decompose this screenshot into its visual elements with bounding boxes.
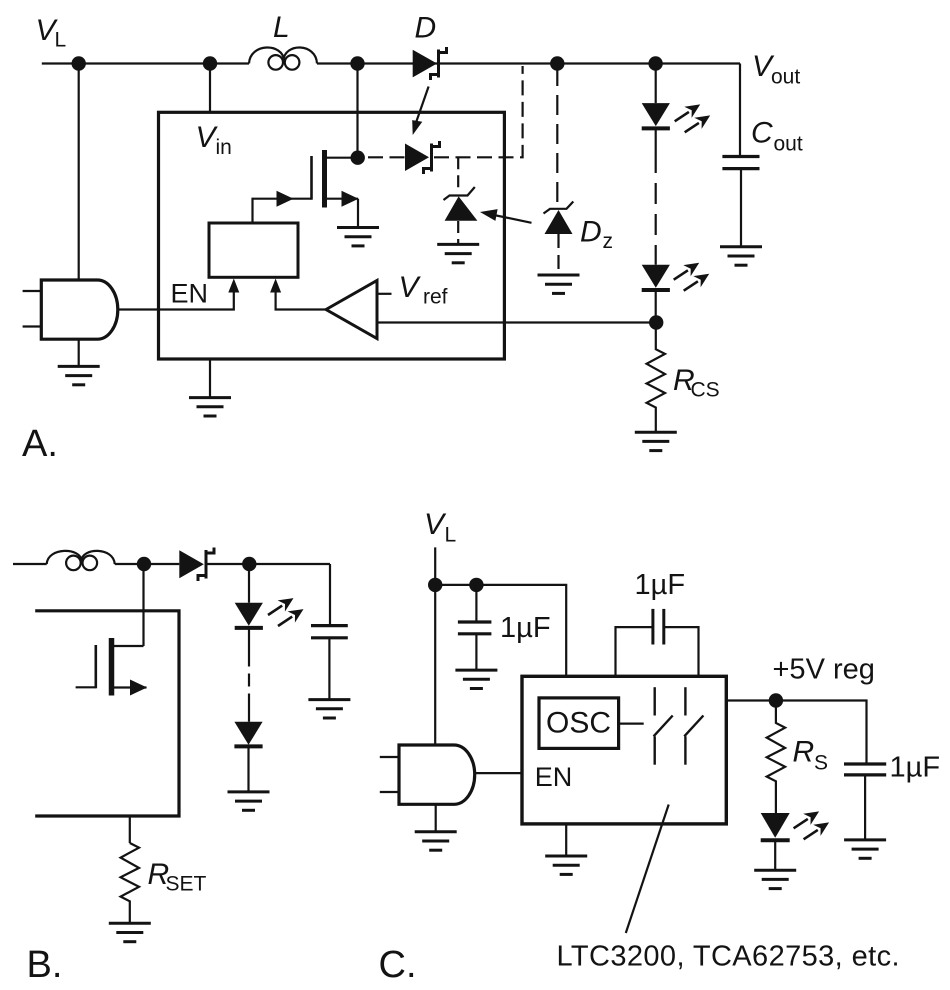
AND gate A <box>41 280 118 339</box>
wire: cap (B) to ground <box>328 638 330 699</box>
AND gate C <box>399 745 475 804</box>
wire: input to inductor <box>13 563 47 565</box>
svg-text:D: D <box>415 12 437 45</box>
inductor (B) <box>47 551 115 570</box>
internal diode (schottky, dashed branch) <box>405 141 440 174</box>
wire: dashed Dz branch from top rail <box>556 66 558 208</box>
resistor RSET <box>121 843 139 922</box>
svg-text:EN: EN <box>535 762 573 792</box>
capacitor Cout <box>722 157 759 169</box>
wire: LED1 cathode stub <box>655 128 657 152</box>
ground (IC box A) <box>189 398 231 416</box>
label VL (C) <box>424 508 456 547</box>
LED (C) <box>761 813 790 840</box>
svg-text:D: D <box>580 216 602 249</box>
svg-text:ref: ref <box>423 286 448 309</box>
LED 1 (B) <box>235 603 263 628</box>
wire: AND gate C output to EN <box>475 772 522 774</box>
svg-text:1µF: 1µF <box>500 612 551 644</box>
LED 2 (B) <box>234 722 262 747</box>
wire: VL down to AND gate <box>78 64 80 281</box>
LED D1 <box>642 103 670 128</box>
label OSC <box>546 707 611 740</box>
ground (output cap C) <box>844 840 886 858</box>
flying capacitor 1uF <box>616 609 699 676</box>
label D <box>415 12 437 45</box>
svg-text:L: L <box>55 29 67 52</box>
charge-pump IC box C <box>522 676 726 824</box>
svg-text:EN: EN <box>171 279 209 309</box>
svg-text:in: in <box>216 136 232 159</box>
wire: AND gate A ground stub <box>78 339 80 366</box>
wire: AND gate C ground stub <box>435 804 437 832</box>
wire: Vout corner down to Cout <box>739 64 741 157</box>
svg-text:SET: SET <box>166 873 207 896</box>
wire: RSET stub from box <box>129 816 131 843</box>
capacitor 1uF input (C) <box>458 622 492 634</box>
node: Vin junction <box>203 56 217 70</box>
label Cout <box>751 117 803 156</box>
internal zener diode <box>444 187 478 221</box>
LED 1 (B) light rays <box>268 598 304 626</box>
LED D1 light rays <box>675 104 711 132</box>
ground (LED C) <box>754 870 796 888</box>
wire: LED2 to sense node <box>655 290 657 323</box>
wire: EN from AND gate into control block arrow <box>118 291 234 310</box>
diode D (schottky) <box>413 47 447 80</box>
wire: drain riser to switch node <box>356 64 358 158</box>
switch S1 <box>654 687 673 765</box>
svg-text:OSC: OSC <box>546 707 611 740</box>
svg-text:C: C <box>751 117 773 150</box>
wire: bypass cap to ground (C) <box>475 634 477 669</box>
ground (M1 source) <box>337 228 379 246</box>
wire: corner down to cap (B) <box>329 564 331 626</box>
ground (AND gate A) <box>58 366 100 384</box>
op-amp buffer U1 <box>326 281 377 339</box>
label Vref <box>399 271 448 309</box>
AND gate A input stubs <box>23 290 42 292</box>
label L <box>273 11 290 44</box>
svg-text:z: z <box>603 230 614 253</box>
label Vin <box>196 121 232 159</box>
label part list <box>557 941 900 973</box>
arrow from D label to internal diode <box>412 87 428 136</box>
OSC block <box>539 698 619 749</box>
svg-text:1µF: 1µF <box>635 569 686 601</box>
wire: dash-dot LED string (B) <box>248 628 250 722</box>
ground (internal zener) <box>437 244 479 262</box>
wire: feedback sense line to RCS node <box>377 321 656 323</box>
IC box B (open left) <box>35 611 179 816</box>
svg-text:LTC3200, TCA62753, etc.: LTC3200, TCA62753, etc. <box>557 941 900 973</box>
label 1uF flying <box>635 569 686 601</box>
node: current sense node <box>649 315 663 329</box>
control block <box>209 223 298 277</box>
arrow into control block (feedback) <box>270 279 281 293</box>
wire: dashed branch down to internal zener <box>457 157 459 193</box>
ground (cap B) <box>308 700 350 718</box>
node: LED string tap on top rail <box>648 56 662 70</box>
wire: +5V output rail <box>726 701 866 763</box>
label RCS <box>673 364 720 402</box>
LED D2 <box>642 265 670 290</box>
pointer line to part list <box>626 805 669 934</box>
wire: buffer output to control block arrow <box>276 291 326 310</box>
label Vout <box>752 50 800 89</box>
wire: box C ground stub <box>565 824 567 855</box>
wire: dashed Dz to ground <box>557 234 559 274</box>
label A. <box>22 423 58 465</box>
label EN (A) <box>171 279 209 309</box>
switch S2 <box>684 687 703 765</box>
wire: dashed internal zener to ground <box>457 221 459 243</box>
LED D2 light rays <box>674 263 710 291</box>
wire: dashed LED string continuation <box>655 152 657 265</box>
ground (RCS) <box>635 432 677 450</box>
wire: M1 source to ground <box>357 199 359 228</box>
wire: OSC to switches <box>619 722 644 724</box>
label +5V reg <box>773 654 875 686</box>
svg-text:1µF: 1µF <box>890 752 941 784</box>
node: LED tap (B) <box>242 557 256 571</box>
svg-text:R: R <box>793 736 815 769</box>
transistor (B, NMOS) <box>76 638 147 696</box>
arrow into control block (EN) <box>228 279 239 293</box>
wire: bypass cap stub (C) <box>475 585 477 622</box>
node: VL junction (C) <box>428 578 442 592</box>
svg-text:L: L <box>445 524 457 547</box>
node: M1 drain <box>351 151 365 165</box>
wire: LED (C) to ground <box>774 840 776 869</box>
arrow from Dz label to internal zener <box>480 209 532 223</box>
capacitor 1uF output (C) <box>844 764 886 775</box>
ground (RSET) <box>109 923 151 941</box>
label Dz <box>580 216 613 254</box>
wire: top rail to LED1 <box>655 64 657 104</box>
zener diode Dz <box>544 202 574 235</box>
wire: dashed drain to internal diode <box>368 156 405 158</box>
label VL (A) <box>36 14 67 52</box>
node: switch node (B) <box>137 557 151 571</box>
wire: dashed internal diode to riser <box>434 66 523 157</box>
label C. <box>379 944 417 986</box>
inductor L <box>249 48 317 70</box>
ground (bypass cap C) <box>455 670 497 688</box>
wire: Vin drop into IC box <box>209 64 211 113</box>
wire: VL top rail <box>42 62 249 64</box>
ground (box C) <box>545 856 587 874</box>
wire: LED2 (B) to ground <box>247 746 249 791</box>
label RS <box>793 736 829 775</box>
node: VL input junction <box>72 56 86 70</box>
transistor M1 (NMOS) <box>312 150 359 208</box>
svg-text:A.: A. <box>22 423 58 465</box>
wire: IC box A ground stub <box>209 359 211 398</box>
svg-text:CS: CS <box>691 379 720 402</box>
node: Dz tap on top rail <box>550 56 564 70</box>
svg-text:out: out <box>771 66 800 89</box>
svg-text:S: S <box>814 752 828 775</box>
diode (B, schottky) <box>179 548 214 582</box>
wire: VL down through AND gate (C) <box>434 547 436 745</box>
svg-text:V: V <box>399 271 422 304</box>
capacitor (B) <box>311 626 348 638</box>
wire: drain riser (B) <box>142 564 144 646</box>
node: switch node (inductor/diode) <box>350 56 364 70</box>
resistor RCS <box>647 323 665 432</box>
wire: inductor to diode <box>115 563 180 565</box>
svg-text:+5V reg: +5V reg <box>773 654 875 686</box>
svg-text:L: L <box>273 11 290 44</box>
label B. <box>27 944 63 986</box>
ground (AND gate C) <box>415 832 457 850</box>
label 1uF input <box>500 612 551 644</box>
wire: VL rail to box C <box>435 585 566 676</box>
transistor M1 gate wire with arrow <box>253 191 312 223</box>
node: +5V reg node <box>769 693 783 707</box>
ground (Cout) <box>720 247 762 265</box>
wire: diode to output corner <box>208 563 331 565</box>
IC box A <box>159 112 505 359</box>
label EN (C) <box>535 762 573 792</box>
wire: output cap to ground <box>864 775 866 839</box>
wire: LED1 (B) anode stub <box>248 564 250 603</box>
ground (Dz) <box>538 275 580 293</box>
wire: Cout to ground <box>740 169 742 247</box>
LED (C) light rays <box>794 811 830 839</box>
svg-text:C.: C. <box>379 944 417 986</box>
label 1uF output <box>890 752 941 784</box>
node: bypass cap tap (C) <box>469 578 483 592</box>
svg-text:B.: B. <box>27 944 63 986</box>
label RSET <box>148 858 207 896</box>
ground (LED string B) <box>228 792 270 810</box>
AND gate C input stubs <box>380 756 399 758</box>
resistor RS <box>767 701 785 814</box>
svg-text:out: out <box>774 133 803 156</box>
wire: Vref stub <box>377 293 392 295</box>
